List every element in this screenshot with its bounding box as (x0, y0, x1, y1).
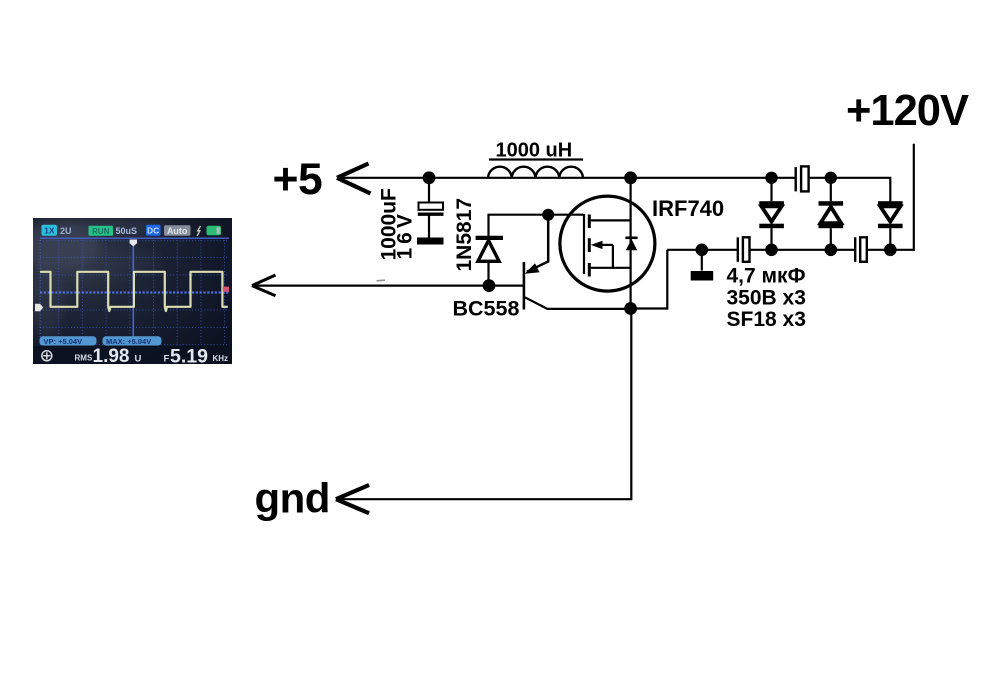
svg-text:4,7 мкФ: 4,7 мкФ (727, 265, 806, 288)
arrow +5 (337, 164, 371, 194)
node D1 bottom (765, 244, 778, 257)
capacitor C3 bottom left (738, 237, 750, 261)
node D2 bottom (825, 244, 838, 257)
node source bottom (624, 302, 637, 315)
capacitor C2 top coupling (796, 166, 809, 191)
oscilloscope photo (16, 218, 232, 364)
wire probe to scope (253, 285, 524, 287)
diode D4 1N5817 wire top (489, 215, 584, 237)
svg-text:50uS: 50uS (116, 226, 138, 236)
svg-text:1000 uH: 1000 uH (496, 140, 573, 162)
diode D2 (819, 178, 844, 250)
ground (pump) (691, 250, 714, 281)
svg-text:+5: +5 (273, 155, 323, 204)
svg-text:RUN: RUN (92, 227, 110, 236)
scope center reference lines (40, 291, 230, 293)
svg-text:KHz: KHz (213, 354, 229, 363)
svg-text:VP: +5.04V: VP: +5.04V (44, 337, 83, 346)
wire top rail right segment (809, 178, 891, 202)
svg-text:U: U (135, 353, 142, 364)
svg-text:Auto: Auto (167, 226, 188, 236)
scope right marker (223, 287, 229, 292)
wire +120V feed (913, 144, 915, 251)
node pump gnd (696, 244, 709, 257)
scope bottom readouts (42, 345, 228, 367)
svg-text:RMS: RMS (75, 353, 93, 362)
svg-text:SF18 x3: SF18 x3 (727, 308, 806, 331)
scope graticule (40, 240, 229, 345)
svg-text:BC558: BC558 (453, 297, 520, 321)
svg-text:16V: 16V (394, 210, 417, 259)
svg-text:1N5817: 1N5817 (453, 198, 476, 272)
node C1/+5 (423, 171, 436, 184)
mosfet U1 IRF740 (560, 196, 655, 291)
scope trigger marker (130, 240, 137, 247)
svg-text:+120V: +120V (846, 87, 969, 135)
wire +5 rail (339, 177, 795, 179)
diode D1 (759, 178, 784, 250)
svg-text:2U: 2U (60, 226, 72, 236)
arrow gnd (336, 485, 369, 513)
wire bottom rail (667, 249, 915, 251)
diode D3 (878, 201, 903, 250)
svg-text:5.19: 5.19 (170, 345, 208, 367)
node D2 top (825, 172, 837, 184)
node drain top (624, 171, 637, 184)
node base (483, 279, 496, 292)
svg-text:350В x3: 350В x3 (727, 286, 806, 309)
scope left marker (35, 304, 43, 311)
svg-text:DC: DC (147, 226, 159, 236)
node gate (542, 209, 554, 221)
scope status bar (40, 225, 229, 238)
artifact tick (377, 279, 386, 282)
inductor L1 underline (489, 158, 583, 160)
node D3 bottom (884, 244, 897, 257)
svg-text:IRF740: IRF740 (652, 196, 724, 221)
ground (C1) (417, 238, 444, 245)
wire drain vertical (629, 178, 631, 309)
arrow probe (252, 275, 276, 296)
transistor Q1 BC558 (524, 215, 631, 310)
inductor L1 1000uH (488, 167, 583, 178)
capacitor C4 bottom right (855, 237, 867, 261)
svg-text:MAX: +5.04V: MAX: +5.04V (106, 337, 151, 346)
svg-text:F: F (164, 353, 170, 364)
scope measurement boxes (40, 336, 162, 346)
wire source to pump rail (631, 250, 668, 309)
svg-text:1.98: 1.98 (93, 346, 130, 367)
node D1 top (765, 172, 777, 184)
wire gnd return (339, 312, 631, 499)
svg-text:1X: 1X (44, 226, 55, 236)
svg-text:gnd: gnd (255, 475, 330, 522)
diode D4 1N5817 (476, 238, 503, 286)
capacitor C1 1000uF (418, 178, 444, 238)
scope waveform (40, 272, 228, 311)
